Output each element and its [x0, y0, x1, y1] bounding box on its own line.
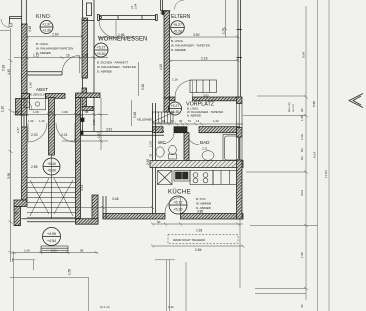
svg-text:5.48: 5.48: [133, 112, 137, 118]
svg-text:3.51: 3.51: [106, 128, 112, 132]
wall stair center hatched: [49, 98, 55, 156]
level circle entrance: [43, 228, 61, 246]
dimension line porch y252.5: [12, 248, 98, 254]
kitchen counter row: [158, 171, 239, 185]
svg-text:1.12: 1.12: [33, 53, 39, 57]
dimension line terrace y211: [76, 206, 155, 209]
dimension texts right column: [300, 52, 328, 308]
svg-text:5.26: 5.26: [141, 84, 145, 90]
svg-text:1.00: 1.00: [24, 248, 30, 252]
dimension vertical line x317.5: [317, 0, 319, 311]
svg-text:1.06: 1.06: [82, 53, 88, 57]
wall WC BAD divider hatched: [184, 133, 189, 161]
svg-text:(3.1 m): (3.1 m): [100, 305, 110, 309]
svg-text:ELTERN: ELTERN: [171, 14, 191, 20]
dimension 5.48 vertical: [132, 100, 138, 126]
door ELTERN-VORPLATZ arc: [175, 81, 193, 98]
svg-text:2.55: 2.55: [31, 165, 38, 169]
dimension vertical line x306: [304, 6, 308, 300]
wall left lower jog hatched: [16, 99, 33, 116]
svg-text:68: 68: [162, 119, 166, 123]
svg-text:+5.30: +5.30: [97, 52, 106, 56]
svg-text:2.60: 2.60: [52, 33, 59, 37]
svg-text:W. ABRIEB: W. ABRIEB: [196, 202, 211, 206]
wall top center pieces: [161, 0, 171, 15]
svg-text:1.10: 1.10: [39, 119, 45, 123]
svg-text:+4.54: +4.54: [47, 239, 56, 243]
svg-text:17.84: 17.84: [324, 170, 328, 178]
svg-text:2.04: 2.04: [134, 3, 138, 9]
entrance steps: [41, 246, 68, 253]
dimension 2.03 2.01: [31, 133, 68, 137]
svg-text:1.93: 1.93: [196, 229, 202, 233]
neighbor unit wall corner top left: [10, 17, 22, 27]
room label VORPLATZ: [186, 102, 215, 108]
window WOHNEN glass front: [98, 15, 158, 21]
tiny window height notes: [289, 102, 295, 112]
dimension row y121: [28, 119, 45, 123]
finish notes VORPLATZ: [187, 107, 223, 118]
svg-text:BAD: BAD: [200, 140, 210, 145]
svg-text:1.35: 1.35: [300, 115, 304, 121]
wall kitchen south hatched: [103, 214, 243, 220]
dimension line 2.60 KIND: [26, 33, 85, 39]
svg-text:KELLERABG.: KELLERABG.: [137, 118, 153, 122]
svg-text:1.96: 1.96: [118, 33, 125, 37]
svg-text:1.50: 1.50: [300, 252, 304, 258]
svg-text:KÜCHE: KÜCHE: [168, 189, 191, 196]
svg-text:5.18: 5.18: [2, 65, 6, 71]
svg-text:50: 50: [300, 148, 304, 152]
svg-text:2.01: 2.01: [51, 248, 57, 252]
dimension 1.58 rotated top: [130, 3, 138, 9]
wall KIND south with door: [27, 72, 62, 75]
svg-text:ABST: ABST: [36, 87, 48, 92]
svg-text:3.85: 3.85: [197, 210, 203, 214]
svg-text:3.90: 3.90: [193, 33, 200, 37]
dimension line stair top y114.5: [13, 110, 108, 116]
wall KIND/WOHNEN divider: [79, 0, 95, 135]
fixture bathtub: [223, 135, 240, 162]
svg-text:3.04: 3.04: [300, 190, 304, 196]
site text bottom: [100, 305, 174, 309]
room label WOHNEN/ESSEN: [98, 37, 147, 43]
svg-text:1.06: 1.06: [62, 110, 68, 114]
svg-text:B. EICHEN - PARKETT: B. EICHEN - PARKETT: [97, 61, 128, 65]
room label BAD: [200, 140, 210, 151]
svg-text:90: 90: [49, 110, 53, 114]
room label KIND: [36, 14, 50, 20]
neighbor door arc: [1, 19, 12, 28]
svg-text:BRH 0.88: BRH 0.88: [289, 102, 291, 112]
wall right exterior double top: [237, 0, 243, 97]
level circle KIND: [40, 21, 53, 34]
svg-text:+5.36: +5.36: [173, 207, 182, 211]
wall WOHNEN south double: [81, 128, 165, 136]
dimension 3.90 ELTERN: [169, 33, 240, 39]
dimension 2.16 ELTERN: [169, 56, 240, 62]
dimension 4.19 vertical: [159, 64, 163, 70]
finish notes WOHNEN: [97, 61, 136, 74]
svg-text:4.19: 4.19: [159, 64, 163, 70]
svg-text:5.58: 5.58: [312, 101, 316, 107]
room label WC: [158, 140, 166, 145]
note box non load bearing: [168, 235, 238, 244]
svg-text:95: 95: [80, 248, 84, 252]
bottom right dimension line: [255, 293, 306, 295]
dimension 1.65 vertical kitchen east: [239, 199, 243, 205]
finish notes KIND: [36, 42, 73, 55]
wall porch right hatched: [76, 195, 99, 224]
room label KUECHE: [168, 189, 191, 196]
door KIND arc: [62, 56, 80, 74]
svg-text:B. PVC: B. PVC: [196, 197, 207, 201]
svg-text:W. RAUHFASER - TAPETEN: W. RAUHFASER - TAPETEN: [171, 44, 210, 48]
level circle VORPLATZ: [169, 102, 182, 115]
wall porch left corner hatched: [14, 200, 27, 226]
door stair right arc: [56, 123, 75, 142]
svg-text:2.16: 2.16: [201, 56, 208, 60]
dimension line kitchen y224: [151, 220, 243, 233]
svg-text:+4.96: +4.96: [47, 232, 56, 236]
dimension 4.18 KIND: [16, 26, 33, 133]
dimension 1.39 vertical right of ELTERN: [222, 0, 228, 37]
svg-text:9.14: 9.14: [313, 152, 317, 158]
wall stair right hatched: [76, 98, 81, 219]
wall ABST south hatched: [22, 93, 101, 98]
svg-text:D. ABRIEB: D. ABRIEB: [171, 48, 186, 52]
svg-text:+5.30: +5.30: [173, 29, 182, 33]
fixtures vestibule boxes: [24, 98, 46, 110]
svg-text:35: 35: [77, 113, 81, 117]
svg-text:90: 90: [300, 108, 304, 112]
wall WOHNEN/ELTERN divider hatched: [164, 11, 170, 112]
svg-text:1.21: 1.21: [92, 119, 96, 125]
svg-text:+1.30: +1.30: [42, 29, 51, 33]
svg-text:4.45: 4.45: [7, 69, 11, 75]
svg-text:1.85: 1.85: [29, 82, 33, 88]
dimension 2.84: [151, 245, 245, 252]
finish notes ELTERN: [171, 39, 210, 52]
wall right below kitchen thin: [239, 219, 241, 288]
svg-text:1.50: 1.50: [149, 141, 153, 147]
svg-text:2.03: 2.03: [31, 133, 38, 137]
svg-text:4.18: 4.18: [28, 26, 32, 32]
fixtures WC: [156, 145, 177, 159]
fixtures BAD basin: [202, 151, 214, 161]
svg-text:95: 95: [85, 110, 89, 114]
svg-text:KIND: KIND: [36, 14, 50, 20]
level circle KUECHE: [169, 196, 187, 214]
svg-text:2.21: 2.21: [202, 147, 208, 151]
svg-text:1.00: 1.00: [13, 110, 19, 114]
svg-text:1.42: 1.42: [213, 119, 219, 123]
dimension texts far left: [1, 65, 19, 215]
duct rect top: [83, 3, 95, 21]
svg-text:60: 60: [15, 211, 19, 215]
svg-text:2.84: 2.84: [195, 248, 202, 252]
svg-text:20: 20: [75, 160, 79, 164]
dimension line far left vertical: [9, 28, 13, 262]
neighbor tick line: [0, 30, 11, 32]
dimension 5.26 vertical: [139, 62, 146, 96]
dimension line VORPLATZ y124: [153, 119, 244, 126]
svg-text:+5.27: +5.27: [97, 46, 106, 50]
dimension 2.90 vertical kitchen west: [146, 159, 150, 165]
svg-text:W. RAUHFASER-TAPETEN: W. RAUHFASER-TAPETEN: [36, 47, 73, 51]
door ELTERN top arc: [175, 0, 185, 10]
svg-text:1.00: 1.00: [300, 134, 304, 140]
dimension 1.96 window: [98, 33, 136, 39]
svg-text:3.56: 3.56: [7, 173, 11, 179]
svg-text:1.16: 1.16: [172, 78, 178, 82]
wall WC BAD north hatched: [153, 127, 240, 133]
svg-text:B. LINOL: B. LINOL: [171, 39, 184, 43]
svg-text:B. LINOL: B. LINOL: [36, 42, 49, 46]
svg-text:1.30: 1.30: [28, 119, 34, 123]
door stair left arc: [28, 123, 47, 142]
wall terrace west double: [103, 196, 106, 219]
wall kitchen west double: [153, 103, 156, 214]
wall right exterior hatched with windows: [237, 97, 243, 219]
svg-text:WC: WC: [158, 140, 166, 145]
dimension 3.51 vertical terrace: [80, 119, 96, 191]
door BAD arc: [187, 133, 199, 145]
svg-text:+1.37: +1.37: [42, 23, 51, 27]
stairs going lines: [30, 178, 73, 216]
dimension 1.16 and 3.02: [172, 78, 209, 98]
svg-text:3.41: 3.41: [168, 305, 174, 309]
wall left exterior top double line: [22, 0, 27, 24]
svg-text:73: 73: [188, 119, 192, 123]
svg-text:2.47: 2.47: [16, 127, 20, 133]
dimension 2.55: [31, 160, 79, 169]
door WC arc: [163, 133, 174, 144]
svg-text:14: 14: [196, 119, 200, 123]
svg-text:+5.17: +5.17: [173, 200, 182, 204]
dimension 1.50 35 WC west: [149, 141, 153, 157]
wall left exterior hatched: [22, 24, 28, 200]
svg-text:20: 20: [179, 119, 183, 123]
svg-text:50: 50: [157, 220, 161, 224]
level circle ELTERN: [171, 21, 185, 35]
svg-text:73: 73: [171, 119, 175, 123]
svg-text:+5.27: +5.27: [171, 104, 180, 108]
dimension 3.48 terrace: [112, 197, 119, 201]
dimension line row y57: [14, 53, 108, 59]
dimension 3.85: [197, 210, 203, 214]
dimension 1.50 bottom left: [68, 269, 72, 275]
svg-text:1.06: 1.06: [33, 110, 39, 114]
stair hall bottom landing lines: [22, 219, 81, 222]
svg-text:2.01: 2.01: [61, 133, 68, 137]
stairs treads: [27, 155, 76, 219]
room label ABST: [30, 87, 48, 97]
svg-text:+5.27: +5.27: [173, 23, 182, 27]
wall ELTERN south hatched: [170, 97, 240, 101]
level circle WOHNEN: [94, 43, 108, 57]
svg-text:3.51: 3.51: [80, 185, 84, 191]
svg-text:D. ABRIEB: D. ABRIEB: [187, 114, 201, 118]
svg-text:UK 2.62: UK 2.62: [293, 103, 295, 112]
north arrow: [349, 94, 363, 108]
svg-text:1.39: 1.39: [222, 28, 226, 34]
svg-text:40: 40: [300, 304, 304, 308]
svg-text:74: 74: [130, 6, 134, 9]
svg-text:1.10: 1.10: [1, 106, 5, 112]
wall BAD KUECHE big hatched band: [150, 161, 243, 168]
room label ELTERN: [171, 14, 191, 20]
svg-text:16: 16: [66, 53, 70, 57]
dimension vertical line x329: [328, 0, 330, 311]
svg-text:35: 35: [149, 153, 153, 157]
svg-text:1.50: 1.50: [68, 269, 72, 275]
svg-text:5.64: 5.64: [302, 52, 306, 58]
svg-text:W. RAUHFASER - TAPETEN: W. RAUHFASER - TAPETEN: [97, 65, 136, 69]
dimension 1.47 vertical x107: [62, 98, 108, 151]
svg-text:D. ABRIEB: D. ABRIEB: [97, 70, 112, 74]
door WOHNEN arc: [99, 21, 116, 38]
level circle stair: [43, 158, 60, 175]
wardrobe ELTERN: [190, 80, 217, 93]
svg-text:3.48: 3.48: [112, 197, 119, 201]
finish notes KUECHE: [196, 197, 211, 210]
svg-text:60: 60: [300, 156, 304, 160]
extension lines right: [243, 96, 318, 289]
svg-text:1.47: 1.47: [97, 132, 101, 138]
svg-text:WAND NICHT TRAGEND: WAND NICHT TRAGEND: [173, 238, 205, 242]
site lines bottom left: [10, 253, 186, 311]
svg-text:2.90: 2.90: [146, 159, 150, 165]
door KUECHE arc: [165, 198, 181, 214]
keller stair: [137, 112, 173, 123]
